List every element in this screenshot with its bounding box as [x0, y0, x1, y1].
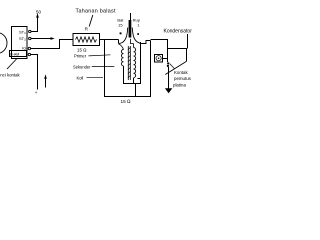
svg-text:Koil: Koil — [77, 75, 84, 80]
svg-text:+: + — [35, 90, 38, 95]
svg-text:15 Ω: 15 Ω — [121, 99, 132, 104]
svg-text:Kunci kontak: Kunci kontak — [0, 72, 20, 77]
svg-text:Tahanan balast: Tahanan balast — [76, 9, 117, 15]
svg-text:ST2: ST2 — [19, 36, 26, 42]
svg-text:Kondensator: Kondensator — [164, 29, 193, 35]
svg-text:Primer: Primer — [74, 53, 87, 58]
svg-text:platina: platina — [173, 83, 186, 88]
svg-text:15: 15 — [118, 23, 123, 28]
svg-text:Sekunder: Sekunder — [73, 64, 91, 69]
svg-text:50: 50 — [36, 10, 42, 15]
svg-text:15 Ω: 15 Ω — [77, 47, 86, 52]
svg-text:Kontak: Kontak — [174, 70, 188, 75]
svg-text:pemutus: pemutus — [174, 76, 192, 81]
svg-text:ST1: ST1 — [19, 29, 26, 35]
svg-text:IG: IG — [22, 46, 26, 51]
svg-text:B-AM: B-AM — [10, 53, 19, 57]
svg-text:R: R — [85, 27, 88, 32]
